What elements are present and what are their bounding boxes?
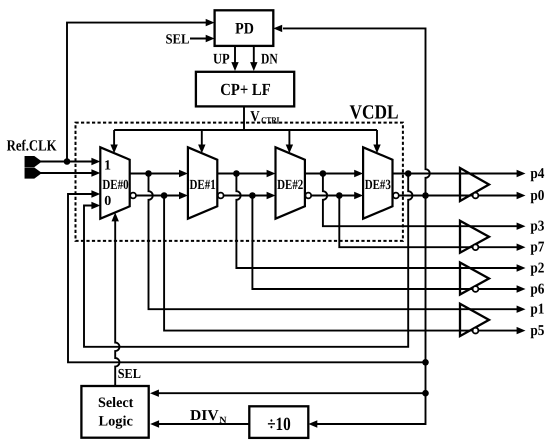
wire Ref.CLK to PD reference input bbox=[67, 23, 210, 162]
svg-text:0: 0 bbox=[104, 194, 111, 209]
inverting bubble DE#0 lower output bbox=[130, 193, 136, 199]
block PD (phase detector) U1 bbox=[215, 10, 274, 46]
svg-text:Logic: Logic bbox=[99, 414, 134, 430]
wire tap B2 to p6 row bbox=[252, 196, 517, 290]
input terminal Ref.CLK+ bbox=[26, 157, 41, 166]
wire VCTRL stem from CP+LF bbox=[243, 106, 245, 130]
buffer U3C (p2/p6) bbox=[460, 263, 489, 295]
svg-text:p3: p3 bbox=[530, 219, 544, 235]
svg-text:N: N bbox=[219, 416, 226, 426]
wire VCTRL drop to DE#0 bbox=[113, 130, 115, 150]
inverting bubble DE#1 lower output bbox=[218, 193, 224, 199]
wire tap A2 to p2 row bbox=[236, 174, 517, 269]
wire DE#3 lower output to buffer U3A / p0 bbox=[399, 195, 517, 197]
svg-text:Select: Select bbox=[98, 395, 134, 411]
wire chain upper DE#1 to DE#2 bbox=[217, 173, 271, 175]
svg-text:VCDL: VCDL bbox=[350, 101, 399, 123]
svg-text:p0: p0 bbox=[530, 188, 544, 204]
buffer U3B (p3/p7) bbox=[460, 221, 489, 253]
svg-text:1: 1 bbox=[104, 159, 111, 174]
junction tap A2 bbox=[233, 170, 240, 177]
junction tap A1 bbox=[145, 170, 152, 177]
wire DE#3 upper output to buffer U3A / p4 bbox=[393, 173, 518, 175]
wire DN from PD to CP+LF bbox=[253, 46, 255, 67]
delay element DE#2 bbox=[276, 147, 305, 218]
wire Ref.CLK- to DE#0 pin 1b bbox=[40, 172, 97, 174]
wire tap B1 to p5 row bbox=[164, 196, 517, 331]
block Select Logic U4 bbox=[81, 386, 148, 438]
input terminal Ref.CLK- bbox=[26, 169, 41, 178]
buffer U3D (p1/p5) bbox=[460, 304, 489, 336]
inverting bubble p0 bbox=[473, 193, 479, 199]
wire p0 feedback branch to DE#0 pin 0a bbox=[68, 194, 426, 362]
svg-text:SEL: SEL bbox=[118, 366, 141, 381]
wire chain upper DE#0 to DE#1 bbox=[130, 173, 184, 175]
wire p4 feedback to DE#0 pin 0b bbox=[84, 174, 413, 347]
svg-text:DE#1: DE#1 bbox=[190, 178, 216, 193]
svg-text:DIV: DIV bbox=[190, 408, 219, 424]
delay element DE#1 bbox=[188, 147, 217, 218]
VCDL dashed boundary bbox=[76, 123, 403, 241]
junction tap B2 bbox=[249, 192, 256, 199]
svg-text:p7: p7 bbox=[530, 240, 544, 256]
wire chain lower DE#1 to DE#2 bbox=[224, 195, 272, 197]
wire tap B3 to p7 row bbox=[339, 196, 517, 248]
inverting bubble DE#3 lower output bbox=[393, 193, 399, 199]
wire VCTRL drop to DE#1 bbox=[201, 130, 203, 150]
svg-text:DE#2: DE#2 bbox=[277, 178, 303, 193]
junction tap B3 bbox=[336, 192, 343, 199]
junction tap A3 bbox=[320, 170, 327, 177]
junction p0 tap bbox=[422, 192, 429, 199]
wire DIVN from ÷10 to Select Logic bbox=[154, 423, 249, 425]
wire tap A3 to p3 row bbox=[323, 174, 517, 227]
wire SEL from Select Logic to DE#0 select pin bbox=[115, 216, 119, 386]
wire VCTRL distribution bus bbox=[114, 129, 377, 131]
wire chain lower DE#0 to DE#1 bbox=[136, 195, 184, 197]
junction select branch bbox=[422, 390, 429, 397]
svg-text:CTRL: CTRL bbox=[261, 116, 282, 126]
wire tap A1 to p1 row bbox=[149, 174, 518, 310]
svg-text:p1: p1 bbox=[530, 302, 544, 318]
svg-text:PD: PD bbox=[235, 21, 254, 38]
inverting bubble p7 bbox=[473, 244, 479, 250]
wire p0 feedback main vertical: PD input, div10, select bbox=[283, 28, 430, 424]
delay element DE#0 bbox=[100, 147, 129, 218]
svg-text:÷10: ÷10 bbox=[267, 414, 291, 435]
block divider ÷10 U5 bbox=[249, 406, 308, 438]
wire feedback branch to Select Logic bbox=[154, 392, 426, 394]
svg-text:CP+ LF: CP+ LF bbox=[220, 80, 271, 99]
delay element DE#3 bbox=[363, 147, 392, 218]
svg-text:Ref.CLK: Ref.CLK bbox=[7, 138, 57, 155]
wire VCTRL drop to DE#2 bbox=[288, 130, 290, 150]
svg-text:p2: p2 bbox=[530, 260, 544, 276]
node VCTRL label bbox=[250, 109, 281, 126]
svg-text:DE#0: DE#0 bbox=[102, 178, 128, 193]
wire Ref.CLK+ to DE#0 pin 1a bbox=[40, 161, 97, 163]
svg-text:UP: UP bbox=[213, 52, 230, 68]
svg-text:p4: p4 bbox=[530, 166, 544, 182]
junction p0 feedback row bbox=[422, 359, 429, 366]
wire chain lower DE#2 to DE#3 bbox=[311, 195, 359, 197]
junction tap B1 bbox=[161, 192, 168, 199]
svg-text:DN: DN bbox=[261, 52, 278, 68]
svg-text:V: V bbox=[250, 109, 260, 125]
svg-text:SEL: SEL bbox=[166, 33, 190, 48]
svg-text:p5: p5 bbox=[530, 323, 544, 339]
wire SEL into PD bbox=[190, 38, 210, 40]
junction Ref.CLK tap bbox=[64, 158, 71, 165]
buffer U3A (p4/p0) bbox=[460, 168, 489, 201]
wire UP from PD to CP+LF bbox=[234, 46, 236, 67]
wire chain upper DE#2 to DE#3 bbox=[305, 173, 359, 175]
block CP+LF (charge pump + loop filter) U2 bbox=[196, 72, 294, 107]
wire VCTRL drop to DE#3 bbox=[376, 130, 378, 150]
inverting bubble p6 bbox=[473, 286, 479, 292]
svg-text:p6: p6 bbox=[530, 281, 544, 297]
label DIVN bbox=[190, 408, 227, 426]
inverting bubble p5 bbox=[473, 328, 479, 334]
junction p4 tap bbox=[405, 170, 412, 177]
inverting bubble DE#2 lower output bbox=[305, 193, 311, 199]
svg-text:DE#3: DE#3 bbox=[365, 178, 391, 193]
